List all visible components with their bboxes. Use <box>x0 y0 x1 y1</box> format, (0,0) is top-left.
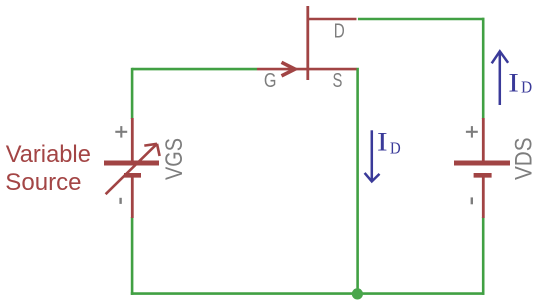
wire: left loop vertical lower green <box>131 217 134 295</box>
svg-text:D: D <box>334 20 345 42</box>
wire: gate lead red segment <box>257 68 308 71</box>
wire: source vertical green (middle) <box>356 68 359 294</box>
minus sign at VDS <box>471 197 473 204</box>
svg-text:VDS: VDS <box>511 137 538 180</box>
battery VGS positive plate <box>104 161 159 166</box>
svg-text:I: I <box>377 128 388 157</box>
svg-text:D: D <box>521 78 532 97</box>
variable-source arrowhead barb west <box>144 144 157 146</box>
svg-text:D: D <box>390 139 401 158</box>
battery VGS negative plate <box>124 173 141 178</box>
battery VDS negative plate <box>474 173 492 178</box>
current ID arrow down (middle) <box>365 130 380 181</box>
transistor Q1 channel bar <box>306 6 309 80</box>
minus sign at VGS <box>119 198 121 204</box>
battery VDS lead lower red <box>482 178 485 219</box>
battery VDS lead upper red <box>482 118 485 161</box>
transistor Q1 gate arrowhead <box>282 62 296 76</box>
wire: gate lead green horizontal <box>132 68 257 71</box>
junction node at bottom <box>352 288 363 299</box>
svg-text:VGS: VGS <box>161 138 188 180</box>
svg-text:Source: Source <box>5 169 81 196</box>
plus sign at VDS <box>466 126 478 138</box>
wire: bottom rail green <box>131 292 485 295</box>
svg-text:I: I <box>508 69 519 98</box>
wire: top rail green (drain to right loop) <box>358 18 484 21</box>
battery VGS lead upper red <box>131 118 134 161</box>
variable-source diagonal arrow body <box>106 144 157 194</box>
current ID arrow up (right) <box>492 51 508 105</box>
svg-text:G: G <box>264 70 277 92</box>
wire: left loop vertical upper green <box>131 68 134 119</box>
battery VDS positive plate <box>454 161 510 166</box>
battery VGS lead lower red <box>131 178 134 219</box>
svg-text:Variable: Variable <box>6 141 91 168</box>
wire: right loop vertical lower green <box>482 217 485 295</box>
wire: source lead red segment <box>308 68 357 71</box>
wire: right loop vertical upper green <box>482 18 485 119</box>
svg-text:S: S <box>333 70 343 92</box>
plus sign at VGS <box>115 126 127 138</box>
variable-source arrowhead barb south <box>157 144 160 156</box>
wire: drain lead red segment <box>308 18 357 21</box>
